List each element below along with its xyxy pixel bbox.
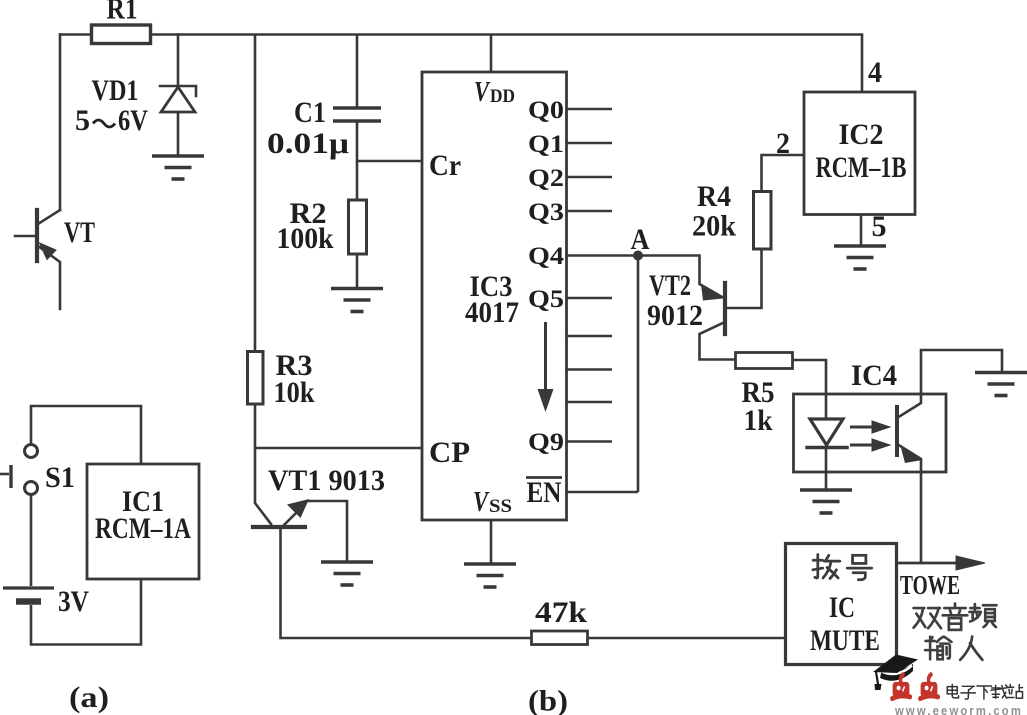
svg-text:4017: 4017	[465, 297, 519, 329]
pin Q4 wire to node A	[567, 254, 639, 257]
optocoupler light arrows	[850, 421, 890, 451]
wire S1 loop top	[31, 406, 141, 464]
svg-text:5: 5	[75, 105, 90, 137]
svg-text:TOWE: TOWE	[900, 570, 960, 600]
pin Q2	[567, 176, 613, 179]
wire R4 to IC2 pin2	[762, 155, 805, 192]
svg-text:0.01μ: 0.01μ	[267, 128, 349, 160]
svg-text:CP: CP	[429, 437, 470, 469]
svg-text:4: 4	[868, 57, 882, 89]
pin Q5	[567, 297, 613, 300]
svg-text:V: V	[474, 76, 491, 108]
ground for VD1	[152, 156, 204, 179]
sequence arrow inside IC3	[538, 322, 554, 412]
wire node A to EN	[637, 256, 640, 493]
wire S1 to battery	[30, 494, 33, 586]
pin Q6	[567, 335, 613, 338]
wire VSS pin	[490, 520, 493, 564]
pin EN wire	[567, 491, 639, 494]
svg-text:VT: VT	[64, 217, 95, 249]
svg-text:IC: IC	[829, 592, 855, 624]
ground for IC2	[834, 246, 886, 269]
IC4 box	[794, 394, 947, 472]
wire R3 branch	[254, 35, 257, 352]
resistor R2	[349, 200, 367, 254]
svg-text:VT2: VT2	[649, 270, 691, 302]
wire top rail	[60, 33, 91, 36]
svg-text:IC2: IC2	[839, 119, 884, 151]
watermark 虫 second	[920, 675, 938, 699]
watermark 虫 first	[892, 675, 910, 699]
svg-text:Q3: Q3	[528, 199, 564, 226]
IC1 box	[87, 464, 199, 579]
wire IC2 pin5	[860, 215, 863, 247]
svg-text:Cr: Cr	[429, 150, 461, 182]
svg-text:Q1: Q1	[528, 131, 564, 158]
label 入	[960, 637, 982, 660]
wire VDD pin	[490, 35, 493, 73]
svg-text:3V: 3V	[58, 586, 89, 618]
svg-text:Q9: Q9	[528, 429, 564, 456]
zener diode VD1	[160, 35, 196, 157]
svg-text:MUTE: MUTE	[810, 625, 880, 657]
pin Q1	[567, 142, 613, 145]
svg-text:2: 2	[776, 128, 790, 160]
svg-text:1k: 1k	[744, 405, 774, 437]
svg-text:EN: EN	[527, 477, 562, 509]
watermark 电	[947, 684, 958, 698]
svg-text:6V: 6V	[118, 105, 148, 137]
IC2 box	[804, 92, 915, 215]
svg-text:IC4: IC4	[851, 360, 897, 392]
svg-text:A: A	[631, 224, 651, 256]
wire IC2 pin4	[861, 35, 864, 93]
wire left rail to VT collector	[59, 35, 62, 211]
svg-text:(a): (a)	[69, 681, 109, 714]
svg-text:C1: C1	[294, 97, 326, 129]
transistor VT	[15, 210, 60, 309]
ground top right	[975, 373, 1027, 396]
label 号 (in MUTE box)	[847, 555, 871, 579]
wire top rail right of R1	[151, 33, 862, 36]
svg-text:47k: 47k	[535, 597, 588, 629]
svg-text:Q5: Q5	[528, 286, 564, 313]
resistor R4	[754, 192, 772, 250]
pin Q3	[567, 210, 613, 213]
ground for R2	[331, 289, 383, 312]
resistor R3	[248, 352, 264, 405]
watermark 载	[991, 685, 1008, 698]
wire R5 to IC4 LED	[793, 360, 827, 419]
label 频	[970, 604, 997, 627]
svg-text:DD: DD	[490, 86, 515, 107]
wire CP	[255, 447, 422, 450]
svg-text:Q0: Q0	[528, 97, 564, 124]
label 拨 (in MUTE box)	[813, 554, 840, 578]
svg-text:V: V	[473, 486, 490, 518]
LED inside IC4	[807, 419, 847, 490]
wire bottom mute line left	[281, 637, 532, 640]
resistor R1	[92, 25, 151, 44]
pin Q9	[567, 440, 613, 443]
svg-text:R4: R4	[697, 181, 731, 213]
svg-text:VD1: VD1	[92, 75, 139, 107]
pin Q7	[567, 368, 613, 371]
svg-text:10k: 10k	[274, 377, 316, 409]
watermark graduation cap	[873, 655, 918, 691]
resistor R5	[736, 353, 793, 369]
phototransistor inside IC4	[897, 350, 1002, 563]
svg-text:20k: 20k	[692, 211, 737, 243]
label 音	[943, 604, 968, 630]
watermark 站	[1007, 684, 1023, 698]
svg-text:100k: 100k	[277, 223, 335, 255]
resistor 47k	[532, 631, 588, 645]
wire C1 branch	[356, 35, 359, 108]
wire 47k to MUTE box	[588, 637, 786, 640]
MUTE box	[786, 544, 897, 665]
capacitor C1	[333, 108, 381, 121]
op IC3 4017 box	[422, 72, 567, 520]
pin Q0	[567, 108, 613, 111]
TOWE output arrow	[897, 556, 986, 570]
ground for VSS	[464, 564, 516, 587]
svg-text:VT1 9013: VT1 9013	[268, 465, 385, 497]
svg-text:www.eeworm.com: www.eeworm.com	[894, 703, 1023, 715]
pin Q8	[567, 401, 613, 404]
svg-text:RCM–1B: RCM–1B	[816, 152, 907, 184]
svg-text:RCM–1A: RCM–1A	[95, 513, 192, 545]
wire R3 to CP node	[254, 404, 257, 448]
watermark 子	[961, 686, 976, 699]
svg-text:Q4: Q4	[528, 243, 565, 270]
wire battery to bottom loop	[31, 579, 141, 645]
svg-text:S1: S1	[45, 462, 75, 494]
battery 3V	[3, 588, 54, 602]
ground for IC4 LED	[800, 490, 852, 513]
label 输	[925, 637, 951, 660]
ground for VT1	[321, 562, 373, 585]
wire C1 to Cr	[357, 121, 422, 161]
svg-text:5: 5	[872, 211, 887, 243]
svg-text:SS: SS	[489, 496, 512, 517]
svg-text:9012: 9012	[647, 300, 703, 332]
svg-text:(b): (b)	[528, 685, 568, 715]
wire C1 node to R2	[356, 161, 359, 200]
svg-text:R1: R1	[107, 0, 138, 26]
wire R2 to ground	[356, 254, 359, 288]
label 双	[914, 608, 941, 628]
node A dot	[633, 251, 643, 261]
transistor VT1	[253, 448, 347, 638]
transistor VT2	[638, 249, 762, 360]
svg-text:Q2: Q2	[528, 165, 564, 192]
switch S1	[0, 445, 38, 495]
watermark 下	[977, 686, 992, 699]
